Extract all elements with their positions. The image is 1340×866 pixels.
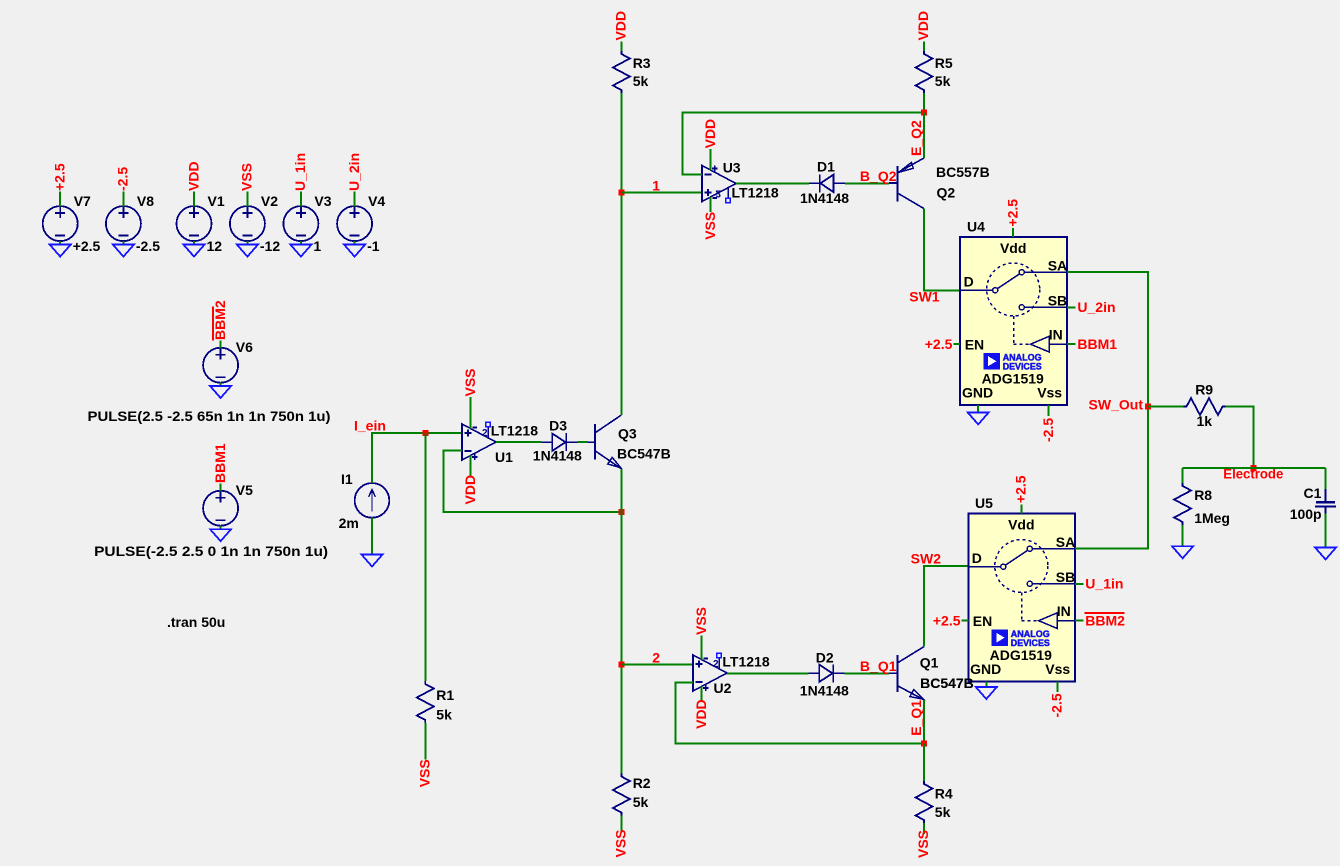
svg-text:U2: U2 (714, 680, 732, 696)
svg-text:-2.5: -2.5 (1049, 693, 1065, 717)
svg-text:+2.5: +2.5 (73, 238, 101, 254)
wire U2 feedback (675, 682, 924, 743)
net label VDD (702, 119, 718, 149)
wire U3 V+ to VDD (710, 149, 712, 171)
resistor R1 (417, 681, 455, 723)
ground (210, 386, 231, 398)
svg-text:U_2in: U_2in (346, 153, 362, 191)
net label VSS (613, 829, 629, 857)
svg-text:V1: V1 (208, 193, 225, 209)
analog switch U5 ADG1519 (968, 495, 1075, 682)
node junction 2 (618, 661, 624, 667)
resistor R5 (916, 51, 953, 93)
op-amp U1 LT1218 (462, 422, 538, 465)
wire Q2 collector to U4 D (924, 209, 960, 291)
ground (184, 245, 205, 257)
voltage source V6 (203, 339, 253, 383)
wire U4 SB stub (1067, 306, 1076, 308)
svg-text:SW1: SW1 (909, 288, 940, 304)
net label VDD (462, 475, 478, 505)
resistor R3 (613, 51, 651, 93)
wire D2 to Q1 base (845, 672, 890, 674)
net label BBM1 (212, 443, 228, 483)
svg-text:VDD: VDD (462, 475, 478, 505)
svg-text:1Meg: 1Meg (1194, 510, 1230, 526)
wire U5 SA to SW_Out (1075, 407, 1148, 549)
resistor R4 (916, 781, 953, 823)
op-amp U3 LT1218 (702, 160, 779, 203)
svg-text:SB: SB (1056, 569, 1075, 585)
svg-text:U1: U1 (495, 449, 513, 465)
svg-text:+2.5: +2.5 (1013, 475, 1029, 503)
svg-text:U4: U4 (967, 219, 985, 235)
transistor Q1 BC547B (NPN) (889, 647, 974, 700)
wire R2 bottom (620, 816, 622, 833)
svg-text:BC557B: BC557B (936, 164, 990, 180)
wire VDD to R5 (923, 42, 925, 52)
wire C1 bottom (1325, 514, 1327, 548)
svg-text:B_Q2: B_Q2 (860, 168, 897, 184)
wire D3 to Q3 base (578, 441, 589, 443)
svg-text:E_Q1: E_Q1 (908, 700, 924, 736)
wire U2 V+ to VDD (701, 687, 703, 701)
ground (1315, 548, 1336, 560)
wire U3 output (736, 183, 809, 185)
node junction feedback (618, 509, 624, 515)
wire U2 V- to VSS (701, 636, 703, 660)
svg-text:VDD: VDD (915, 11, 931, 41)
svg-text:VSS: VSS (462, 368, 478, 396)
net label U_2in (346, 153, 362, 191)
voltage source V1 (177, 193, 225, 254)
svg-text:U5: U5 (975, 495, 993, 511)
ground (237, 245, 258, 257)
net label E_Q2 (908, 120, 924, 156)
svg-text:R5: R5 (935, 55, 953, 71)
diode D2 1N4148 (800, 650, 849, 699)
svg-text:R9: R9 (1195, 381, 1213, 397)
wire R4 bottom (923, 823, 925, 834)
svg-text:ADG1519: ADG1519 (990, 647, 1052, 663)
svg-text:V3: V3 (314, 193, 331, 209)
svg-text:Q2: Q2 (937, 185, 956, 201)
net label VSS (693, 607, 709, 635)
transistor Q2 BC557B (PNP) (889, 158, 990, 209)
wire U3 feedback from R5/Q2 (682, 112, 924, 174)
svg-text:V7: V7 (74, 193, 91, 209)
svg-text:VDD: VDD (693, 699, 709, 729)
svg-text:U_2in: U_2in (1077, 299, 1115, 315)
wire I1 to U1 + (372, 433, 462, 483)
transistor Q3 BC547B (NPN) (588, 415, 671, 469)
svg-text:5k: 5k (633, 794, 649, 810)
svg-text:EN: EN (973, 613, 992, 629)
svg-text:D1: D1 (817, 159, 835, 175)
svg-text:VDD: VDD (185, 161, 201, 191)
svg-text:1: 1 (652, 177, 660, 193)
wire U5 GND (985, 682, 987, 687)
wire node1 to U3 + (621, 191, 702, 193)
wire down to C1 (1325, 468, 1327, 489)
svg-text:VDD: VDD (613, 11, 629, 41)
ground (976, 687, 997, 699)
svg-text:I_ein: I_ein (354, 417, 386, 433)
svg-text:LT1218: LT1218 (722, 654, 769, 670)
svg-text:DEVICES: DEVICES (1011, 638, 1050, 649)
wire V5 top (220, 483, 222, 491)
svg-text:U3: U3 (723, 160, 741, 176)
svg-text:R4: R4 (935, 785, 953, 801)
svg-text:I1: I1 (341, 471, 353, 487)
node junction 1 (618, 189, 624, 195)
current source I1 (339, 471, 390, 531)
wire U1 feedback (444, 451, 622, 512)
svg-text:2: 2 (716, 187, 722, 198)
wire junction to R4 (923, 743, 925, 781)
net label BBM2 (overline) (212, 300, 228, 340)
net label BBM2 (overline) (1084, 612, 1125, 628)
wire U4 SA to SW_Out (1067, 272, 1148, 406)
svg-text:Vss: Vss (1045, 661, 1070, 677)
svg-text:.tran 50u: .tran 50u (167, 614, 225, 630)
svg-text:BBM2: BBM2 (212, 300, 228, 340)
ground (290, 245, 311, 257)
net label VDD (613, 11, 629, 41)
svg-text:VSS: VSS (915, 830, 931, 858)
svg-text:2: 2 (482, 428, 488, 439)
node junction E_Q1 (921, 740, 927, 746)
svg-text:+2.5: +2.5 (925, 336, 953, 352)
wire U4 IN stub (1067, 343, 1076, 345)
resistor R2 (613, 774, 651, 816)
wire U5 EN stub (962, 620, 969, 622)
ground (1172, 546, 1193, 558)
svg-text:D: D (972, 550, 982, 566)
wire V7 bottom (59, 241, 61, 245)
svg-text:-2.5: -2.5 (136, 238, 160, 254)
svg-text:D2: D2 (816, 650, 834, 666)
wire down to R8 (1182, 468, 1184, 484)
node junction Electrode (1250, 465, 1256, 471)
analog switch U4 ADG1519 (960, 219, 1067, 406)
wire Q1 collector to U5 D (924, 566, 968, 646)
ground (50, 245, 71, 257)
wire R5 to junction (923, 93, 925, 112)
wire Q2 emitter (923, 112, 925, 158)
svg-text:V8: V8 (137, 193, 154, 209)
svg-text:VSS: VSS (239, 163, 255, 191)
svg-text:C1: C1 (1304, 485, 1322, 501)
svg-text:BBM1: BBM1 (212, 443, 228, 483)
net label VDD (693, 699, 709, 729)
svg-text:SA: SA (1048, 257, 1067, 273)
wire down to R1 (424, 433, 426, 681)
svg-text:D3: D3 (549, 418, 567, 434)
net label VSS (239, 163, 255, 191)
svg-text:U_1in: U_1in (1085, 576, 1123, 592)
svg-text:BC547B: BC547B (617, 446, 671, 462)
svg-text:-2.5: -2.5 (1040, 418, 1056, 442)
svg-text:VSS: VSS (417, 759, 433, 787)
wire V3 top (300, 191, 302, 206)
net label VDD (915, 11, 931, 41)
net label +2.5 (1004, 199, 1020, 227)
svg-text:Q3: Q3 (618, 426, 637, 442)
ground (344, 245, 365, 257)
wire Electrode row (1183, 467, 1326, 469)
wire V8 top (122, 191, 124, 206)
voltage source V4 (337, 193, 385, 254)
wire V5 bottom (220, 526, 222, 530)
svg-text:1N4148: 1N4148 (800, 683, 849, 699)
svg-text:V5: V5 (236, 482, 253, 498)
wire R3 to Q3 collector (node 1 column) (620, 93, 622, 415)
net label VSS (702, 212, 718, 240)
wire U5 Vdd (1020, 505, 1022, 514)
svg-text:100p: 100p (1290, 506, 1322, 522)
wire VDD to R3 (620, 42, 622, 52)
voltage source V5 (203, 482, 253, 526)
wire Q1 emitter (923, 700, 925, 744)
svg-text:1N4148: 1N4148 (800, 190, 849, 206)
svg-text:Vss: Vss (1037, 385, 1062, 401)
svg-text:V4: V4 (368, 193, 385, 209)
wire V1 bottom (193, 241, 195, 245)
svg-text:D: D (964, 274, 974, 290)
net label VDD (185, 161, 201, 191)
svg-text:SA: SA (1056, 534, 1075, 550)
svg-text:5k: 5k (935, 73, 951, 89)
svg-text:LT1218: LT1218 (732, 185, 779, 201)
svg-text:BBM1: BBM1 (1077, 336, 1117, 352)
diode D1 1N4148 (800, 159, 849, 207)
svg-text:VSS: VSS (702, 212, 718, 240)
svg-text:1k: 1k (1197, 413, 1213, 429)
svg-text:-1: -1 (367, 238, 380, 254)
wire U4 Vss (1048, 405, 1050, 416)
ground (210, 529, 231, 541)
wire R8 bottom (1182, 525, 1184, 546)
svg-text:SW2: SW2 (911, 550, 942, 566)
net label VSS (462, 368, 478, 396)
net label -2.5 (1040, 418, 1056, 442)
svg-text:+2.5: +2.5 (1004, 199, 1020, 227)
svg-text:12: 12 (207, 238, 223, 254)
wire U4 GND (977, 405, 979, 412)
wire U5 IN stub (1075, 620, 1083, 622)
wire V4 bottom (354, 241, 356, 245)
wire U1 V- to VSS (470, 397, 472, 428)
svg-text:1N4148: 1N4148 (533, 448, 582, 464)
svg-text:IN: IN (1049, 327, 1063, 343)
svg-text:SW_Out: SW_Out (1089, 396, 1144, 412)
wire U1 V+ to VDD (470, 456, 472, 478)
wire R9 to Electrode (1226, 407, 1254, 468)
capacitor C1 100p (1290, 485, 1336, 522)
wire V3 bottom (300, 241, 302, 245)
svg-text:U_1in: U_1in (292, 153, 308, 191)
svg-text:5k: 5k (436, 707, 452, 723)
net label +2.5 (1013, 475, 1029, 503)
node junction SW_Out (1145, 404, 1151, 410)
svg-text:VSS: VSS (693, 607, 709, 635)
voltage source V7 (43, 193, 101, 254)
net label -2.5 (1049, 693, 1065, 717)
wire U2 output (727, 672, 809, 674)
svg-text:R1: R1 (436, 687, 454, 703)
svg-text:GND: GND (962, 385, 993, 401)
svg-text:V2: V2 (261, 193, 278, 209)
svg-text:SB: SB (1048, 293, 1067, 309)
wire V2 bottom (246, 241, 248, 245)
svg-text:E_Q2: E_Q2 (908, 120, 924, 156)
svg-text:IN: IN (1057, 603, 1071, 619)
ground (968, 412, 989, 424)
wire Q3 emitter down (node 2 column) (620, 469, 622, 774)
node junction I_ein (422, 430, 428, 436)
svg-text:DEVICES: DEVICES (1003, 361, 1042, 372)
wire U5 Vss (1057, 682, 1059, 692)
svg-text:R8: R8 (1194, 487, 1212, 503)
net label -2.5 (115, 167, 131, 191)
svg-text:BBM2: BBM2 (1085, 612, 1125, 628)
svg-text:+2.5: +2.5 (933, 612, 961, 628)
svg-text:Vdd: Vdd (1008, 516, 1034, 532)
svg-text:BC547B: BC547B (920, 675, 974, 691)
net label +2.5 (52, 163, 68, 191)
svg-text:VDD: VDD (702, 119, 718, 149)
svg-text:Vdd: Vdd (1000, 240, 1026, 256)
wire R1 bottom (424, 723, 426, 760)
wire V8 bottom (122, 241, 124, 245)
voltage source V3 (283, 193, 331, 254)
svg-text:PULSE(2.5 -2.5 65n 1n 1n 750n: PULSE(2.5 -2.5 65n 1n 1n 750n 1u) (88, 408, 331, 424)
svg-text:+2.5: +2.5 (52, 163, 68, 191)
diode D3 1N4148 (533, 418, 582, 464)
node junction E_Q2 (921, 109, 927, 115)
svg-text:2: 2 (713, 659, 719, 670)
svg-text:1: 1 (313, 238, 321, 254)
wire I1 to ground (371, 518, 373, 555)
ground (362, 555, 383, 567)
voltage source V2 (230, 193, 280, 254)
net label E_Q1 (908, 700, 924, 736)
svg-text:EN: EN (965, 336, 984, 352)
wire V6 top (220, 340, 222, 348)
op-amp U2 LT1218 (693, 653, 770, 696)
svg-text:-12: -12 (260, 238, 280, 254)
wire node2 to U2 + (621, 663, 693, 665)
svg-text:LT1218: LT1218 (491, 423, 538, 439)
wire V4 top (354, 191, 356, 206)
wire V6 bottom (220, 383, 222, 386)
voltage source V8 (106, 193, 160, 254)
wire D1 to Q2 base (845, 182, 889, 184)
svg-text:R3: R3 (633, 55, 651, 71)
svg-text:VSS: VSS (613, 829, 629, 857)
svg-text:2m: 2m (339, 515, 359, 531)
wire SW_Out to R9 (1148, 406, 1184, 408)
svg-text:5k: 5k (633, 73, 649, 89)
net label U_1in (292, 153, 308, 191)
wire U5 SB stub (1075, 583, 1083, 585)
resistor R9 (1184, 381, 1226, 429)
wire V1 top (193, 191, 195, 206)
resistor R8 (1174, 483, 1230, 526)
svg-text:PULSE(-2.5 2.5 0 1n 1n 750n 1u: PULSE(-2.5 2.5 0 1n 1n 750n 1u) (94, 543, 328, 559)
svg-text:B_Q1: B_Q1 (860, 658, 897, 674)
ground (113, 245, 134, 257)
wire U1 output (496, 441, 542, 443)
svg-text:ADG1519: ADG1519 (982, 371, 1044, 387)
wire V2 top (246, 191, 248, 206)
net label VSS (417, 759, 433, 787)
net label VSS (915, 830, 931, 858)
svg-text:5k: 5k (935, 804, 951, 820)
wire V7 top (59, 191, 61, 206)
wire U4 EN stub (953, 343, 960, 345)
svg-text:-2.5: -2.5 (115, 167, 131, 191)
svg-text:R2: R2 (633, 775, 651, 791)
wire U4 Vdd (1012, 228, 1014, 237)
svg-text:Q1: Q1 (920, 655, 939, 671)
svg-text:V6: V6 (236, 339, 253, 355)
wire U3 V- to VSS (710, 197, 712, 212)
svg-text:GND: GND (970, 661, 1001, 677)
svg-text:2: 2 (652, 649, 660, 665)
